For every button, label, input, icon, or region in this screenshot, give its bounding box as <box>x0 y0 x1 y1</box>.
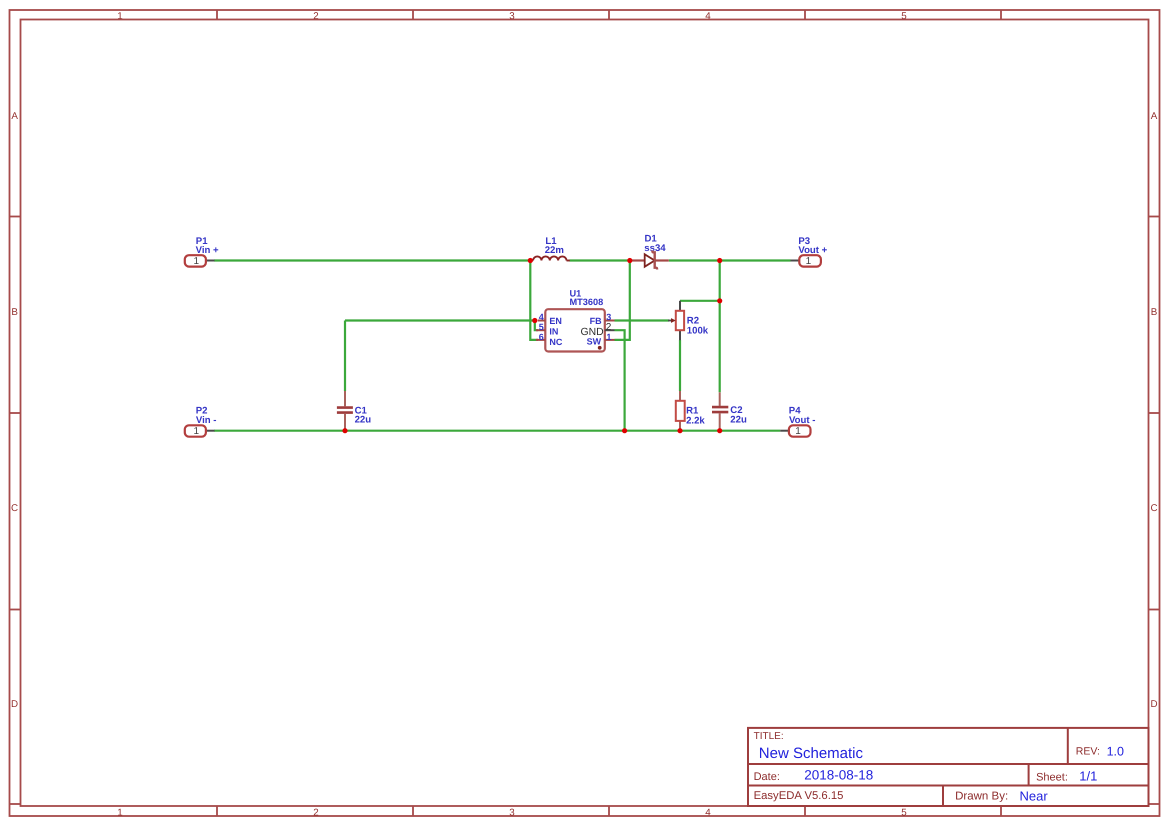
svg-text:EasyEDA V5.6.15: EasyEDA V5.6.15 <box>754 790 844 802</box>
title block (decorative) <box>748 728 1149 806</box>
U1 pin 5 IN stub <box>536 329 545 331</box>
svg-text:SW: SW <box>587 336 602 346</box>
P1 pin 1 <box>206 260 215 262</box>
svg-text:B: B <box>11 307 18 318</box>
junction Vout node <box>717 258 722 263</box>
U1 pin 1 SW stub <box>605 339 615 341</box>
C1 plates and pins <box>344 391 346 406</box>
svg-text:1: 1 <box>194 426 200 437</box>
wire EN net down to C1 <box>344 321 346 392</box>
svg-text:5: 5 <box>539 322 544 332</box>
U1 body <box>545 309 605 351</box>
resistor R1 <box>676 391 706 431</box>
junction R2 top node <box>717 298 722 303</box>
wire SW node to U1 pin 1 <box>615 261 630 340</box>
U1 pin 1 marker dot <box>598 346 602 350</box>
svg-text:22u: 22u <box>355 415 372 426</box>
P3 pin 1 <box>791 260 800 262</box>
P2 pin 1 <box>206 430 215 432</box>
svg-text:A: A <box>11 111 18 122</box>
wire GND U1 pin 2 down to GND rail <box>615 330 625 431</box>
svg-text:3: 3 <box>606 312 611 322</box>
svg-text:1: 1 <box>795 426 801 437</box>
connector P4 <box>780 406 815 438</box>
junction C2 GND node <box>717 428 722 433</box>
svg-text:NC: NC <box>549 337 562 347</box>
svg-text:3: 3 <box>509 807 515 818</box>
junction U1 GND node <box>622 428 627 433</box>
svg-text:1.0: 1.0 <box>1107 745 1124 759</box>
C2 plates and pins <box>719 392 721 406</box>
svg-text:C: C <box>11 503 18 514</box>
svg-text:MT3608: MT3608 <box>570 297 604 307</box>
connector P3 <box>791 236 828 267</box>
D1 anode lead and schottky body <box>631 259 645 261</box>
wire Vin+ rail P1 to L1 <box>214 259 530 261</box>
wire R2 bottom to R1 top <box>679 340 681 391</box>
svg-text:1: 1 <box>806 256 812 267</box>
svg-text:1: 1 <box>194 256 200 267</box>
svg-text:2.2k: 2.2k <box>686 415 705 426</box>
svg-text:1: 1 <box>117 807 122 818</box>
svg-text:2: 2 <box>313 11 318 22</box>
svg-text:Drawn By:: Drawn By: <box>955 791 1008 803</box>
svg-text:1: 1 <box>117 11 122 22</box>
svg-text:22m: 22m <box>545 245 564 256</box>
wire R2 top to Vout branch <box>680 300 720 302</box>
wire Vout node to P3 <box>720 259 791 261</box>
svg-text:4: 4 <box>705 807 711 818</box>
wire EN net C1 to U1 pin 4 <box>345 319 535 321</box>
svg-text:D: D <box>11 699 18 710</box>
svg-text:2018-08-18: 2018-08-18 <box>804 768 873 783</box>
U1 pin 3 FB stub <box>605 320 615 322</box>
connector P2 <box>185 406 217 438</box>
wire L1 to D1 <box>570 259 630 261</box>
svg-text:5: 5 <box>901 11 907 22</box>
wire EN to IN tie <box>535 321 538 331</box>
junction C1 GND node <box>342 428 347 433</box>
svg-text:FB: FB <box>590 316 602 326</box>
svg-text:22u: 22u <box>730 415 747 426</box>
wire GND rail P2 to P4 <box>214 430 780 432</box>
capacitor C2 <box>712 392 747 430</box>
P4 pin 1 <box>780 430 789 432</box>
svg-text:100k: 100k <box>687 325 709 336</box>
svg-text:TITLE:: TITLE: <box>754 731 784 742</box>
svg-text:A: A <box>1151 111 1158 122</box>
svg-text:Date:: Date: <box>754 771 780 783</box>
U1 pin 4 EN stub <box>538 320 546 322</box>
svg-text:1: 1 <box>606 332 611 342</box>
U1 pin 2 GND stub <box>605 329 615 331</box>
R1 body and pins <box>679 391 681 401</box>
junction SW node <box>627 258 632 263</box>
svg-text:C: C <box>1150 503 1157 514</box>
svg-text:New Schematic: New Schematic <box>759 745 864 762</box>
svg-text:5: 5 <box>901 807 907 818</box>
svg-text:EN: EN <box>549 316 562 326</box>
inductor L1 <box>531 236 570 261</box>
svg-text:Vin -: Vin - <box>196 415 217 426</box>
svg-text:IN: IN <box>549 327 558 337</box>
svg-text:Sheet:: Sheet: <box>1036 771 1068 783</box>
resistor R2 <box>668 301 709 340</box>
L1 coil body <box>531 260 534 262</box>
junction L1 left node <box>528 258 533 263</box>
svg-text:1/1: 1/1 <box>1079 769 1097 784</box>
wire Vout node down to C2 <box>719 261 721 393</box>
wire Vin+ down to U1 pin 6 <box>530 261 538 340</box>
connector P1 <box>185 236 219 267</box>
junction R1 GND node <box>677 428 682 433</box>
svg-text:3: 3 <box>509 11 515 22</box>
svg-text:Near: Near <box>1020 788 1049 803</box>
wire FB U1 pin 3 to R2 <box>615 319 670 321</box>
svg-text:D: D <box>1150 699 1157 710</box>
capacitor C1 <box>337 391 371 431</box>
junction EN node <box>532 318 537 323</box>
svg-text:B: B <box>1151 307 1158 318</box>
U1 pin 6 NC stub <box>536 339 545 341</box>
svg-text:4: 4 <box>539 312 544 322</box>
diode D1 ss34 <box>631 234 669 270</box>
wire D1 cathode to Vout node <box>669 259 720 261</box>
svg-text:6: 6 <box>539 332 544 342</box>
svg-text:2: 2 <box>313 807 318 818</box>
svg-text:4: 4 <box>705 11 711 22</box>
R2 body and pins <box>679 301 681 311</box>
svg-text:REV:: REV: <box>1076 746 1100 758</box>
